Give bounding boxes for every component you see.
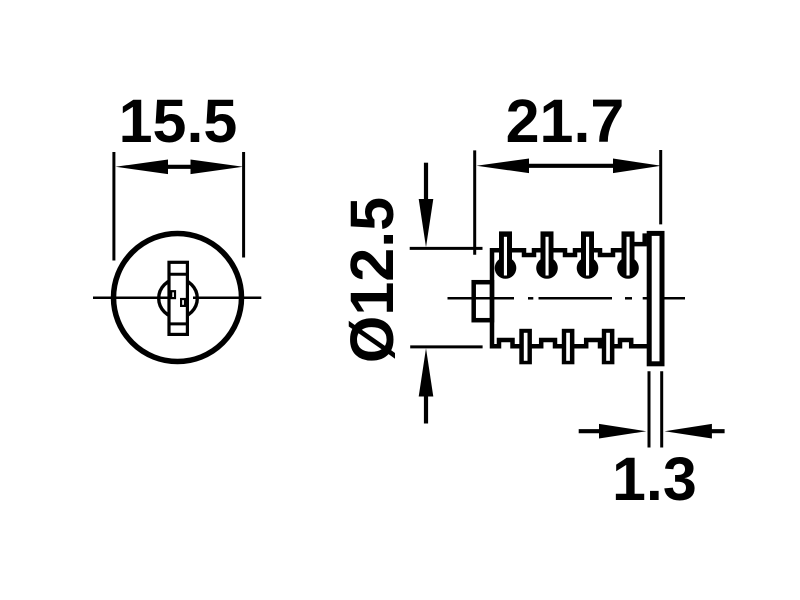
side view body bottom edge with tabs bbox=[492, 340, 649, 346]
side view body left edge bbox=[490, 248, 495, 349]
top pin 2 bbox=[536, 231, 558, 278]
dimension 1.3 extension line right bbox=[660, 371, 663, 447]
dimension 1.3 left arrow (pointing right) bbox=[579, 429, 604, 433]
front view inner circle (plug) bbox=[159, 279, 198, 318]
dimension Ø12.5 bottom extension line bbox=[410, 345, 482, 348]
front view horizontal centerline bbox=[93, 296, 261, 299]
side view centerline (dash-dot) bbox=[448, 297, 686, 300]
dimension Ø12.5 top arrow (pointing down) bbox=[424, 163, 428, 205]
dimension 1.3 extension line left bbox=[648, 371, 651, 447]
dimension 21.7 extension line right bbox=[659, 150, 662, 224]
bottom pin 2 bbox=[562, 329, 575, 365]
svg-text:1.3: 1.3 bbox=[612, 445, 697, 513]
dimension 15.5 extension line left bbox=[112, 152, 115, 261]
side view cam (left protrusion) bbox=[474, 282, 492, 320]
svg-text:15.5: 15.5 bbox=[119, 87, 238, 155]
top pin 3 bbox=[577, 231, 599, 278]
dimension 15.5 extension line right bbox=[242, 152, 245, 258]
keyway upper divider line bbox=[169, 273, 187, 276]
keyway lower divider line bbox=[169, 322, 187, 325]
keyway right notch bbox=[181, 299, 185, 306]
svg-text:21.7: 21.7 bbox=[506, 87, 625, 155]
dimension Ø12.5 bottom arrow (pointing up) bbox=[424, 392, 428, 424]
dimension Ø12.5 top extension line bbox=[410, 247, 483, 250]
dimension 1.3 right arrow (pointing left) bbox=[707, 429, 725, 433]
front view keyway rectangle bbox=[169, 262, 187, 334]
top pin 4 bbox=[617, 231, 639, 278]
dimension 21.7 extension line left bbox=[473, 150, 476, 254]
front view outer circle (cylinder face) bbox=[114, 234, 242, 362]
dimension 21.7 arrow line bbox=[525, 164, 616, 168]
bottom pin 1 bbox=[519, 329, 532, 365]
side view top edge bar right of pin 4 bbox=[630, 233, 645, 244]
top pin 1 bbox=[495, 231, 517, 278]
keyway left notch bbox=[171, 291, 175, 298]
side view right end plate bbox=[649, 233, 662, 363]
dimension 15.5 arrow line bbox=[160, 165, 198, 169]
bottom pin 3 bbox=[602, 329, 615, 365]
svg-text:Ø12.5: Ø12.5 bbox=[338, 197, 406, 363]
side view body top edge with notches bbox=[492, 250, 628, 255]
